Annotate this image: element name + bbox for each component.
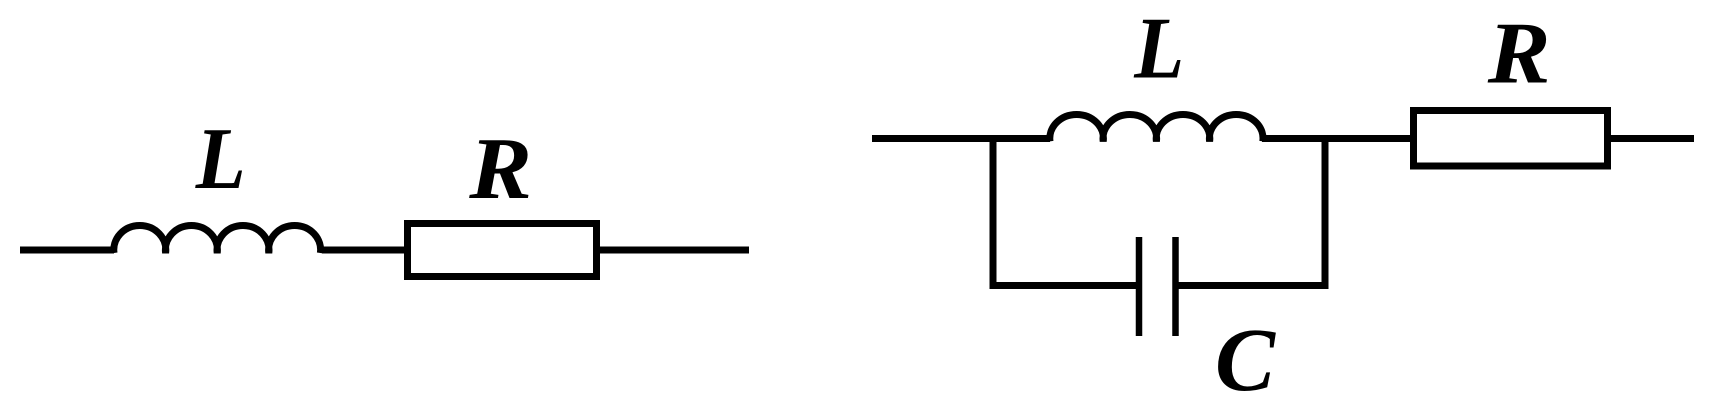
svg-text:L: L bbox=[1133, 0, 1184, 97]
svg-text:R: R bbox=[468, 120, 532, 218]
svg-text:R: R bbox=[1487, 4, 1551, 102]
svg-text:L: L bbox=[195, 110, 246, 207]
svg-text:C: C bbox=[1215, 311, 1276, 410]
